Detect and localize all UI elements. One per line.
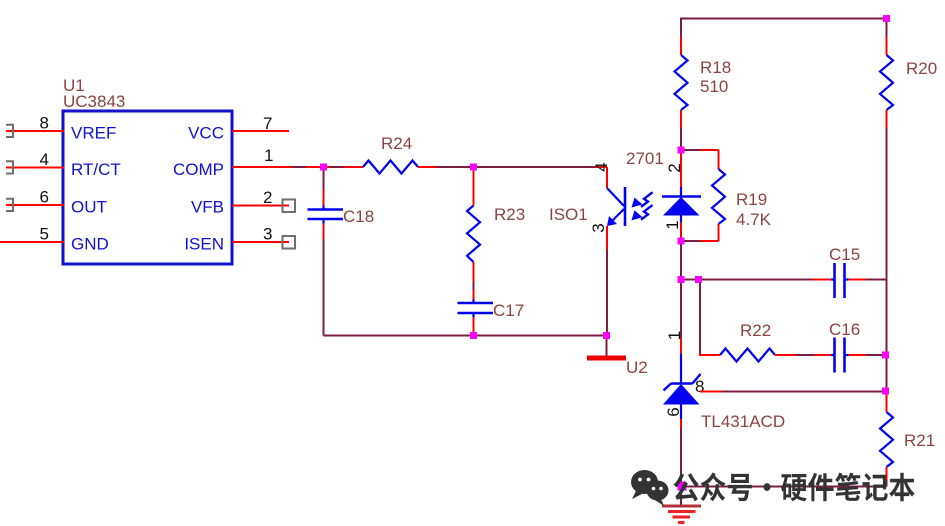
wire U1 pin 2 VFB [232, 205, 289, 207]
capacitor C18 top lead red [323, 190, 325, 209]
U1 pin name VREF [71, 124, 116, 143]
U1 pin name OUT [71, 198, 107, 217]
pin number 8 [40, 114, 49, 133]
U1 designator label [63, 76, 85, 95]
svg-text:TL431ACD: TL431ACD [701, 412, 785, 431]
optocoupler LED bottom lead [680, 216, 682, 242]
resistor R21 top lead red [886, 391, 888, 412]
R19 value label 4.7K [736, 210, 772, 229]
U1 pin name ISEN [184, 235, 224, 254]
wire U1 pin 4 RT/CT [6, 167, 64, 169]
resistor R20 bottom lead red [886, 110, 888, 128]
svg-text:1: 1 [663, 220, 682, 229]
resistor R24 [363, 161, 418, 174]
resistor R23 [467, 206, 480, 263]
junction node A dot [320, 164, 327, 171]
svg-text:1: 1 [264, 146, 273, 165]
R24 designator label [381, 134, 412, 153]
R18 value label 510 [700, 77, 728, 96]
TL431ACD value label [701, 412, 785, 431]
svg-text:OUT: OUT [71, 198, 107, 217]
svg-text:R24: R24 [381, 134, 412, 153]
resistor R18 [675, 55, 688, 110]
UC3843 value label [63, 92, 125, 111]
wire top rail [681, 19, 887, 56]
svg-text:C15: C15 [829, 245, 860, 264]
resistor R23 top lead red [473, 171, 475, 206]
svg-text:R23: R23 [494, 205, 525, 224]
wire R19 bottom branch [681, 224, 719, 241]
svg-text:3: 3 [263, 225, 272, 244]
R19 designator label [736, 190, 767, 209]
svg-text:4: 4 [40, 150, 49, 169]
svg-text:7: 7 [263, 114, 272, 133]
svg-text:COMP: COMP [173, 160, 224, 179]
junction node D dot [603, 332, 610, 339]
pin number 1 [264, 146, 273, 165]
wire U1 pin 5 GND [0, 241, 64, 243]
wire ground rail bottom [681, 486, 887, 488]
wire TL431 pin 8 to rail [700, 391, 887, 393]
svg-text:R19: R19 [736, 190, 767, 209]
pin number 1 TL431 sideways [665, 331, 684, 340]
svg-text:VCC: VCC [188, 124, 224, 143]
pin number 8 TL431 [695, 377, 704, 396]
junction ground dot [678, 482, 687, 491]
wire R22 C16 branch [699, 280, 720, 356]
wire C15 net horizontal [681, 279, 887, 281]
svg-text:C16: C16 [829, 320, 860, 339]
optocoupler LED top lead [680, 150, 682, 196]
svg-text:2701: 2701 [626, 149, 664, 168]
wire red segment into opto pin 4 [595, 166, 607, 168]
svg-text:8: 8 [40, 114, 49, 133]
wire U1 pin 8 VREF [6, 130, 64, 132]
U1 pin name RT/CT [71, 160, 121, 179]
pin number 4 opto sideways [592, 162, 611, 171]
ISO1 designator label [549, 205, 588, 224]
junction LED bottom dot [678, 238, 685, 245]
C18 designator label [343, 207, 374, 226]
R18 designator label [700, 58, 731, 77]
resistor R20 [880, 55, 893, 110]
svg-text:2: 2 [665, 163, 684, 172]
TL431 U2 cathode lead blue [680, 354, 682, 384]
IC U1 UC3843 body [63, 111, 232, 264]
svg-text:5: 5 [40, 225, 49, 244]
wire bottom rail [324, 335, 607, 337]
svg-text:4.7K: 4.7K [736, 210, 772, 229]
U1 pin name VFB [191, 198, 224, 217]
capacitor C17 [458, 303, 494, 313]
capacitor C16 right lead red [845, 354, 887, 356]
svg-text:ISEN: ISEN [184, 235, 224, 254]
junction top right dot [883, 15, 890, 22]
junction node B dot [470, 164, 477, 171]
resistor R20 top lead red [886, 37, 888, 55]
U1 pin name GND [71, 235, 109, 254]
U1 pin name COMP [173, 160, 224, 179]
wire R22 to C16 [775, 354, 834, 356]
wire net COMP horizontal [232, 166, 607, 168]
R21 designator label [904, 431, 935, 450]
junction C15 net left dot [678, 276, 685, 283]
terminal square pin 3 [283, 236, 296, 249]
off-sheet stub pin 8 [6, 125, 13, 137]
light arrows [632, 192, 653, 220]
wire U1 pin 6 OUT [6, 204, 64, 206]
resistor R24 left lead [344, 166, 363, 168]
capacitor C18 bottom lead red [322, 220, 324, 238]
wire red segment at node A [306, 166, 330, 168]
pin number 6 [40, 188, 49, 207]
wire right rail [886, 110, 888, 487]
svg-text:GND: GND [71, 235, 109, 254]
optocoupler ISO1 phototransistor [607, 187, 625, 226]
capacitor C15 right lead red [845, 278, 866, 280]
pin number 2 [263, 188, 272, 207]
U2 designator label near bar [626, 358, 648, 377]
svg-text:VFB: VFB [191, 198, 224, 217]
optocoupler ISO1 phototransistor pin 4 wire [606, 167, 608, 188]
capacitor C17 bottom lead red [472, 314, 474, 334]
C16 designator label [829, 320, 860, 339]
pin number 3 opto sideways [589, 223, 608, 232]
wire LED node to TL431 cathode [680, 241, 682, 354]
optocoupler LED [662, 197, 701, 216]
optocoupler pin 3 wire to rail [606, 226, 608, 336]
svg-text:R20: R20 [906, 59, 937, 78]
wire U1 pin 3 ISEN [232, 241, 289, 243]
svg-text:510: 510 [700, 77, 728, 96]
capacitor C17 top lead red [473, 290, 475, 303]
resistor R18 bottom lead red [680, 110, 682, 128]
svg-text:R21: R21 [904, 431, 935, 450]
junction node C dot [470, 332, 477, 339]
wire R18 to LED node [680, 128, 682, 150]
R20 designator label [906, 59, 937, 78]
wire R23 C17 branch vertical [473, 167, 475, 336]
svg-text:ISO1: ISO1 [549, 205, 588, 224]
off-sheet stub pin 4 [6, 161, 13, 173]
watermark wechat icon [631, 470, 669, 506]
resistor R18 top lead red [680, 37, 682, 55]
junction TL431 net rail dot [882, 388, 889, 395]
svg-text:UC3843: UC3843 [63, 92, 125, 111]
resistor R24 right lead [418, 166, 437, 168]
svg-text:RT/CT: RT/CT [71, 160, 121, 179]
capacitor C15 [835, 263, 845, 298]
junction LED top dot [678, 147, 685, 154]
C15 designator label [829, 245, 860, 264]
resistor R21 [880, 412, 893, 467]
pin number 6 TL431 sideways [664, 407, 683, 416]
TL431 anode lead [680, 405, 682, 487]
svg-text:2: 2 [263, 188, 272, 207]
capacitor C16 [835, 338, 845, 373]
C17 designator label [493, 301, 524, 320]
resistor R19 [712, 169, 725, 224]
wire U1 pin 1 lead red [232, 166, 292, 168]
terminal square pin 2 [283, 200, 296, 213]
svg-text:R22: R22 [740, 321, 771, 340]
U1 pin name VCC [188, 124, 224, 143]
wire R19 top branch [681, 150, 719, 169]
resistor R22 [720, 349, 775, 362]
wire C18 branch vertical [323, 167, 325, 336]
power bar [587, 356, 626, 361]
R22 designator label [740, 321, 771, 340]
wire to power bar U2 [606, 336, 608, 357]
off-sheet stub pin 6 [6, 199, 13, 211]
junction C16 rail dot [882, 352, 889, 359]
svg-text:C17: C17 [493, 301, 524, 320]
wire U1 pin 7 VCC [232, 130, 289, 132]
svg-text:4: 4 [592, 162, 611, 171]
svg-text:6: 6 [40, 188, 49, 207]
capacitor C15 left lead red [812, 279, 834, 281]
svg-text:R18: R18 [700, 58, 731, 77]
pin number 3 [263, 225, 272, 244]
pin number 7 [263, 114, 272, 133]
TL431 U2 symbol [663, 374, 701, 405]
resistor R21 bottom lead red [886, 467, 888, 480]
watermark text [674, 473, 915, 502]
junction R22 net dot [695, 276, 702, 283]
R23 designator label [494, 205, 525, 224]
svg-text:8: 8 [695, 377, 704, 396]
svg-text:1: 1 [665, 331, 684, 340]
pin number 1 opto sideways [663, 220, 682, 229]
svg-text:3: 3 [589, 223, 608, 232]
resistor R23 bottom lead red [473, 262, 475, 282]
pin number 2 opto sideways [665, 163, 684, 172]
svg-text:U2: U2 [626, 358, 648, 377]
pin number 5 [40, 225, 49, 244]
2701 value label [626, 149, 664, 168]
svg-text:VREF: VREF [71, 124, 116, 143]
ground [662, 487, 701, 523]
pin number 4 [40, 150, 49, 169]
svg-text:C18: C18 [343, 207, 374, 226]
capacitor C18 [308, 210, 344, 220]
